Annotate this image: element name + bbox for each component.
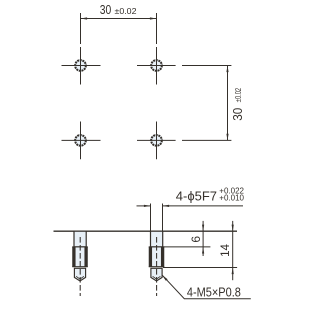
svg-text:±0.02: ±0.02 [115,6,137,16]
svg-text:+0.010: +0.010 [219,193,244,202]
svg-text:±0.02: ±0.02 [233,88,243,102]
svg-text:30: 30 [100,3,112,17]
svg-text:4-M5×P0.8: 4-M5×P0.8 [187,285,241,300]
svg-text:14: 14 [218,244,232,257]
svg-text:6: 6 [189,236,203,243]
svg-text:4-ϕ5F7: 4-ϕ5F7 [176,188,217,203]
svg-text:30: 30 [230,108,245,121]
